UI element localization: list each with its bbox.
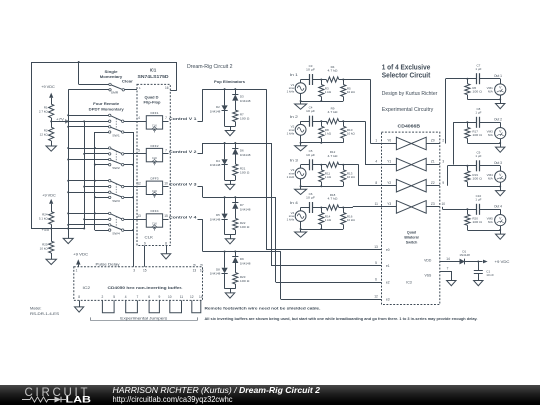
label Control V 3 xyxy=(169,183,197,187)
node out1 j2 xyxy=(499,98,501,100)
diode D5 xyxy=(222,197,228,234)
svg-text:D9: D9 xyxy=(240,257,244,261)
svg-text:e3: e3 xyxy=(386,298,390,302)
wire R25 bottom xyxy=(51,253,53,259)
wire VSS xyxy=(440,271,452,281)
svg-text:1 µF: 1 µF xyxy=(475,111,481,115)
wire Y1 stub xyxy=(382,164,397,166)
label R4 xyxy=(328,65,339,73)
wire Control V 3 ext xyxy=(198,186,203,188)
svg-text:Flip-Flop: Flip-Flop xyxy=(144,101,162,105)
svg-text:Z3: Z3 xyxy=(431,202,435,206)
resistor R18 xyxy=(321,205,343,210)
svg-text:100 Ω: 100 Ω xyxy=(472,133,482,137)
label DFF1 pins xyxy=(138,116,167,120)
ground in3 xyxy=(295,186,307,194)
label Z1 xyxy=(431,160,435,164)
svg-text:+9 VDC: +9 VDC xyxy=(73,253,88,257)
label Z3 xyxy=(431,202,435,206)
resistor R12 xyxy=(321,162,343,167)
label VM3 xyxy=(487,130,494,138)
node in2 j2 xyxy=(342,120,344,122)
wire out4 rail xyxy=(467,230,500,232)
wire in1 rail xyxy=(300,100,344,102)
node in2 j1 xyxy=(320,120,322,122)
label e2 xyxy=(386,281,390,285)
ground pop3 xyxy=(225,239,234,244)
ground in4 xyxy=(295,229,307,237)
wire in3 top xyxy=(301,164,309,166)
svg-text:LAB: LAB xyxy=(66,394,92,405)
wire jumper J5 xyxy=(192,300,201,312)
switch U1 bowtie xyxy=(396,158,426,171)
wire SW3 feeds xyxy=(68,181,108,198)
svg-text:Pop Eliminators: Pop Eliminators xyxy=(214,79,246,84)
svg-text:2.7 kΩ: 2.7 kΩ xyxy=(39,110,49,114)
svg-text:14: 14 xyxy=(199,295,203,299)
svg-text:DPDT Momentary: DPDT Momentary xyxy=(89,106,125,111)
svg-text:VDD: VDD xyxy=(424,259,432,263)
svg-text:2: 2 xyxy=(102,295,104,299)
wire in3 rail xyxy=(300,185,344,187)
node VDD junction xyxy=(477,261,479,263)
svg-text:HARRISON RICHTER (Kurtus) /: HARRISON RICHTER (Kurtus) / xyxy=(113,385,239,395)
svg-text:3: 3 xyxy=(133,269,135,273)
svg-text:e0: e0 xyxy=(386,248,390,252)
ground in2 xyxy=(295,143,307,151)
label D5 xyxy=(210,213,221,221)
wire pop2 top xyxy=(203,143,271,145)
svg-text:DFF4: DFF4 xyxy=(151,209,159,213)
label Pulse Delay xyxy=(96,263,120,267)
label R14 xyxy=(325,214,332,222)
wire in4 rail xyxy=(300,228,344,230)
svg-text:Z2: Z2 xyxy=(431,181,435,185)
ground pop1 xyxy=(225,131,234,136)
wire in2 rail xyxy=(300,142,344,144)
svg-text:4: 4 xyxy=(125,295,127,299)
resistor R8 xyxy=(319,121,324,143)
switch U0 bowtie xyxy=(396,137,426,150)
resistor R1 xyxy=(49,104,54,118)
label SW3 xyxy=(112,199,120,203)
label V1 xyxy=(287,83,295,94)
ground R2 xyxy=(46,146,56,151)
svg-text:1 kHz: 1 kHz xyxy=(287,131,295,135)
wire Z0 to out1 xyxy=(446,79,468,144)
ground VSS xyxy=(447,281,456,286)
resistor R9 xyxy=(321,119,343,124)
resistor R2 xyxy=(49,127,54,141)
svg-text:10 kΩ: 10 kΩ xyxy=(40,246,49,250)
svg-text:N/A: N/A xyxy=(488,220,493,224)
svg-text:12 kΩ: 12 kΩ xyxy=(40,133,49,137)
label pin 1 xyxy=(375,139,377,143)
label Out 1 xyxy=(494,74,502,78)
label model xyxy=(30,306,60,315)
source V1 xyxy=(295,80,306,102)
wire SW4 feeds xyxy=(68,214,108,231)
label VM1 xyxy=(487,86,494,94)
label Z0 xyxy=(431,139,435,143)
svg-text:Dream-Rig Circuit 2: Dream-Rig Circuit 2 xyxy=(187,64,233,70)
svg-text:In 4: In 4 xyxy=(290,201,298,205)
flip-flop DFF1 xyxy=(146,116,162,133)
diode D9 xyxy=(232,252,238,273)
label Out 3 xyxy=(494,161,502,165)
resistor R25 xyxy=(49,241,54,253)
svg-text:1N4148: 1N4148 xyxy=(210,272,221,276)
wire in2 to Y1 xyxy=(343,121,381,164)
flip-flop DFF2 xyxy=(146,148,162,165)
wire DFF2 out xyxy=(163,153,169,155)
label R10 xyxy=(347,128,356,136)
label design-by xyxy=(382,91,438,97)
label DFF1 xyxy=(151,111,159,115)
svg-text:1 µF: 1 µF xyxy=(475,198,481,202)
label DFF3 xyxy=(151,177,159,181)
capacitor C4 xyxy=(310,116,313,127)
wire out3 cap-vm xyxy=(480,165,500,167)
wire jumper J3 xyxy=(149,300,159,312)
svg-text:Z0: Z0 xyxy=(431,139,435,143)
wire pop2 rail xyxy=(225,180,236,184)
svg-text:Control V 1: Control V 1 xyxy=(169,117,197,121)
ground bus A xyxy=(63,229,73,244)
svg-text:V: V xyxy=(499,216,502,220)
label pin 2 xyxy=(442,139,444,143)
switch U2 bowtie xyxy=(396,179,426,192)
node bus B taps xyxy=(83,120,85,229)
label R13 xyxy=(347,172,356,180)
label +7V xyxy=(56,117,69,123)
wire CLK bus xyxy=(133,132,135,267)
svg-text:1 µF: 1 µF xyxy=(475,154,481,158)
svg-text:Design by Kurtus Richter: Design by Kurtus Richter xyxy=(382,91,438,97)
node pop1 taps xyxy=(224,88,237,90)
wire Z1 to out2 xyxy=(453,122,467,164)
label pin 12 xyxy=(374,295,378,299)
svg-text:SW1: SW1 xyxy=(112,134,120,138)
label C5 xyxy=(306,149,315,157)
diode D2 xyxy=(222,89,228,126)
node pop2 taps xyxy=(224,142,237,144)
label D9 xyxy=(240,257,251,265)
svg-text:1N4148: 1N4148 xyxy=(240,99,251,103)
wire SMR drop xyxy=(79,62,109,85)
svg-text:8: 8 xyxy=(165,241,167,245)
wire in3 to Y2 xyxy=(343,165,381,186)
svg-text:Z1: Z1 xyxy=(431,160,435,164)
svg-text:14: 14 xyxy=(446,257,450,261)
svg-text:DFF3: DFF3 xyxy=(151,177,159,181)
resistor R21 xyxy=(233,164,238,180)
switch SW2 xyxy=(109,147,124,166)
svg-text:12: 12 xyxy=(374,295,378,299)
resistor R11 xyxy=(319,165,324,187)
svg-text:1 kΩ: 1 kΩ xyxy=(325,175,332,179)
label R19 xyxy=(472,173,482,181)
svg-text:CD4050 hex non-inverting buffe: CD4050 hex non-inverting buffer. xyxy=(108,285,183,290)
svg-text:+9 VDC: +9 VDC xyxy=(41,84,55,89)
svg-text:Switch: Switch xyxy=(406,241,418,245)
label R17 xyxy=(472,130,482,138)
resistor R10 xyxy=(341,121,346,143)
svg-text:SW4: SW4 xyxy=(112,232,120,236)
label C4 xyxy=(306,106,315,114)
label R8 xyxy=(325,128,332,136)
label pin 3 xyxy=(442,160,444,164)
node in1 j1 xyxy=(320,79,322,81)
ground out3 xyxy=(496,187,505,196)
label Four Remote DPDT Momentary xyxy=(89,101,125,111)
wire out1 rail xyxy=(467,99,500,101)
wire in1 to Y0 xyxy=(343,80,381,144)
label C3 xyxy=(306,64,315,72)
wire Control V 2 ext xyxy=(198,153,203,155)
svg-text:15: 15 xyxy=(164,214,168,218)
svg-text:CLK: CLK xyxy=(145,236,154,240)
svg-text:5: 5 xyxy=(113,295,115,299)
label Control V 2 xyxy=(169,150,197,154)
wire out1 cap-vm xyxy=(480,78,500,80)
wire jumper J2 xyxy=(126,300,138,312)
svg-text:1 kΩ: 1 kΩ xyxy=(325,218,332,222)
switch SW4 xyxy=(109,212,124,231)
label R22 xyxy=(240,221,250,229)
svg-text:In 3: In 3 xyxy=(290,158,298,162)
label Y2 xyxy=(387,181,391,185)
label +9 VDC upper xyxy=(41,84,55,89)
label IC2 bottom pins xyxy=(78,295,203,299)
label Control V 4 xyxy=(169,215,198,219)
ground in1 xyxy=(295,101,307,109)
svg-text:1 kHz: 1 kHz xyxy=(287,175,295,179)
label V2 xyxy=(287,125,295,136)
wire pop4 to e3 xyxy=(281,252,382,300)
wire out2 cap-vm xyxy=(480,122,500,124)
svg-text:100 Ω: 100 Ω xyxy=(240,117,250,121)
svg-text:Y2: Y2 xyxy=(387,181,391,185)
ground pop4 xyxy=(225,293,234,298)
svg-text:nc: nc xyxy=(193,263,197,267)
wire bus A xyxy=(68,90,70,229)
ground pop2 xyxy=(225,184,234,189)
node bus C taps xyxy=(94,147,96,214)
node in1 j2 xyxy=(342,79,344,81)
svg-text:1: 1 xyxy=(76,269,78,273)
ic IC2 dashed box xyxy=(74,267,203,301)
svg-text:1 kΩ: 1 kΩ xyxy=(325,132,332,136)
svg-text:Selector Circuit: Selector Circuit xyxy=(382,73,431,80)
power +9VDC IC2 xyxy=(73,253,88,267)
wire SW4 common1 to DFF4 xyxy=(124,219,146,221)
wire out1 top xyxy=(467,78,477,80)
svg-text:Bilateral: Bilateral xyxy=(404,236,418,240)
svg-text:Out 2: Out 2 xyxy=(494,118,502,122)
resistor R7 xyxy=(233,110,238,126)
capacitor C5 xyxy=(310,159,313,170)
label IC1 pin1 xyxy=(139,86,141,90)
label R2 xyxy=(40,129,49,137)
label D2 xyxy=(210,105,221,113)
label V3 xyxy=(287,168,295,179)
svg-text:Out 4: Out 4 xyxy=(494,205,502,209)
power +9VDC right xyxy=(483,260,510,264)
voltmeter VM3 xyxy=(495,122,506,143)
label IC2 nc pins xyxy=(193,263,204,273)
wire in3 cap-j xyxy=(312,164,321,166)
label Y0 xyxy=(387,139,391,143)
svg-text:6: 6 xyxy=(375,278,377,282)
label pin 14 xyxy=(446,257,450,261)
ground C1 xyxy=(474,281,483,286)
label experimental xyxy=(382,107,434,113)
svg-text:100 Ω: 100 Ω xyxy=(472,177,482,181)
label R7 xyxy=(240,113,250,121)
svg-text:10: 10 xyxy=(442,202,446,206)
svg-text:10: 10 xyxy=(164,181,168,185)
capacitor C7 xyxy=(477,73,480,84)
wire pop1 to e0 xyxy=(266,89,381,250)
svg-text:+7V: +7V xyxy=(56,117,65,121)
label SW1 xyxy=(112,134,120,138)
label Out 4 xyxy=(494,205,502,209)
svg-text:D6: D6 xyxy=(240,149,244,153)
node out1 j1 xyxy=(466,78,468,80)
ground out4 xyxy=(496,230,505,239)
svg-text:1N4148: 1N4148 xyxy=(240,207,251,211)
source V4 xyxy=(295,208,306,230)
logo CircuitLab xyxy=(0,385,540,405)
wire VDD xyxy=(440,261,460,263)
ground IC1 pin8 xyxy=(161,254,170,259)
label note2 xyxy=(205,317,478,321)
node pop4 taps xyxy=(224,251,237,253)
node out2 j2 xyxy=(499,142,501,144)
svg-text:5.1 kΩ: 5.1 kΩ xyxy=(39,217,49,221)
wire R1-R2 xyxy=(51,118,53,128)
svg-text:100 Ω: 100 Ω xyxy=(472,220,482,224)
label dream-rig xyxy=(187,64,233,70)
svg-text:http://circuitlab.com/ca39yqz3: http://circuitlab.com/ca39yqz32cwhc xyxy=(113,395,233,404)
svg-text:D2: D2 xyxy=(216,105,220,109)
label C8 xyxy=(475,107,481,115)
svg-text:V: V xyxy=(499,86,502,90)
svg-text:10 nF: 10 nF xyxy=(486,273,494,277)
voltmeter VM5 xyxy=(495,209,506,230)
resistor R16 xyxy=(341,208,346,230)
capacitor C3 xyxy=(310,74,313,85)
label e0 xyxy=(386,248,390,252)
label SW4 xyxy=(112,232,120,236)
label R6 xyxy=(472,86,482,94)
svg-text:15: 15 xyxy=(143,269,147,273)
svg-text:Out 3: Out 3 xyxy=(494,161,502,165)
wire pop1 riser xyxy=(202,89,204,121)
source V2 xyxy=(295,121,306,143)
svg-text:1 of 4 Exclusive: 1 of 4 Exclusive xyxy=(382,64,431,71)
node out3 j2 xyxy=(499,186,501,188)
svg-text:CD4066B: CD4066B xyxy=(398,123,421,128)
voltmeter VM1 xyxy=(495,79,506,100)
label C9 xyxy=(475,151,481,159)
label C1 xyxy=(486,270,494,278)
svg-text:N/A: N/A xyxy=(488,177,493,181)
svg-text:13: 13 xyxy=(374,245,378,249)
label C6 xyxy=(306,192,315,200)
wire out4 top xyxy=(467,209,477,211)
wire Y0 stub xyxy=(382,143,397,145)
svg-text:Pulse Delay: Pulse Delay xyxy=(96,263,120,267)
label Y1 xyxy=(387,160,391,164)
label IC1 pin9 xyxy=(144,241,146,245)
wire SW2 common1 to DFF2 xyxy=(124,153,146,155)
svg-text:D7: D7 xyxy=(240,203,244,207)
svg-text:D8: D8 xyxy=(216,267,220,271)
svg-text:RS-DR-1-4-ES: RS-DR-1-4-ES xyxy=(30,312,60,316)
label +5V xyxy=(42,228,51,232)
svg-text:+9 VDC: +9 VDC xyxy=(42,192,56,197)
label SN74LS175D xyxy=(138,74,169,79)
wire DFF3 out xyxy=(163,186,169,188)
svg-text:IC3: IC3 xyxy=(406,281,412,285)
svg-text:1N4148: 1N4148 xyxy=(240,262,251,266)
label +9 VDC lower xyxy=(42,192,56,197)
svg-text:IC1: IC1 xyxy=(150,68,157,73)
svg-text:4.7 kΩ: 4.7 kΩ xyxy=(328,197,339,201)
label CD4066B xyxy=(398,123,421,128)
svg-text:Quad D: Quad D xyxy=(145,96,159,100)
wire Z2 to out3 xyxy=(448,166,468,186)
svg-text:V: V xyxy=(499,129,502,133)
svg-text:100 Ω: 100 Ω xyxy=(240,225,250,229)
wire Y2 stub xyxy=(382,185,397,187)
label IC2 pin3 xyxy=(133,269,135,273)
wire Z0 stub xyxy=(426,143,440,145)
svg-text:Control V 4: Control V 4 xyxy=(169,215,198,219)
resistor R22 xyxy=(233,218,238,234)
svg-text:1 kHz: 1 kHz xyxy=(287,90,295,94)
node bus A taps xyxy=(67,114,69,229)
svg-text:In 2: In 2 xyxy=(290,115,298,119)
label Control V 1 xyxy=(169,117,197,121)
svg-text:1: 1 xyxy=(375,139,377,143)
svg-text:4.7 kΩ: 4.7 kΩ xyxy=(328,69,339,73)
wire SW3 common1 to DFF3 xyxy=(124,186,146,188)
wire IC1 pin8 gnd xyxy=(166,246,168,254)
svg-text:1N4148: 1N4148 xyxy=(210,218,221,222)
capacitor C1 xyxy=(474,262,483,281)
label C7 xyxy=(475,64,481,72)
power +9V lower arrow xyxy=(49,199,53,212)
wire DFF4 out xyxy=(163,219,169,221)
svg-text:1 µF: 1 µF xyxy=(475,67,481,71)
svg-text:13: 13 xyxy=(193,269,197,273)
svg-text:10 kΩ: 10 kΩ xyxy=(347,218,356,222)
svg-text:Out 1: Out 1 xyxy=(494,74,502,78)
wire Control V 1 ext xyxy=(198,121,203,123)
svg-text:10 µF: 10 µF xyxy=(306,68,315,72)
svg-text:Y0: Y0 xyxy=(387,139,391,143)
svg-text:16: 16 xyxy=(165,86,169,90)
node out4 j2 xyxy=(499,229,501,231)
node in4 j1 xyxy=(320,207,322,209)
label R25 xyxy=(40,242,49,250)
capacitor C6 xyxy=(310,202,313,213)
svg-text:1N4148: 1N4148 xyxy=(210,163,221,167)
source V3 xyxy=(295,165,306,187)
